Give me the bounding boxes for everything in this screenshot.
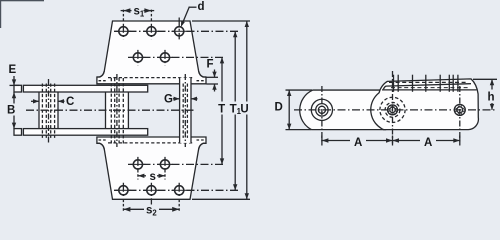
side view horizontal centerline <box>294 109 497 111</box>
svg-text:s: s <box>150 171 156 183</box>
pin2 knurl <box>388 105 397 114</box>
hole row centerline bottom outer <box>114 189 239 191</box>
holes top plate outer row <box>119 27 184 36</box>
scan artifact left edge <box>0 0 1 28</box>
roller strip pin2 <box>106 92 129 129</box>
hidden pin lines pin2 <box>111 78 123 144</box>
dimension U <box>192 21 250 199</box>
rear link sidebar <box>300 90 386 130</box>
svg-text:C: C <box>66 96 74 108</box>
dimension s <box>138 170 165 180</box>
sidebar top <box>23 85 147 92</box>
svg-text:F: F <box>207 59 214 71</box>
svg-text:A: A <box>354 137 362 149</box>
dimension G arrows <box>173 97 198 101</box>
foot hidden marks top right <box>197 80 205 82</box>
dimension s2 <box>123 200 179 213</box>
foot hidden marks bottom left <box>99 139 107 141</box>
bend hidden line top plate <box>108 77 194 79</box>
pin3 knurl <box>455 105 465 115</box>
pin2 vertical centerline <box>392 71 394 144</box>
attachment plate bottom (trapezoid slat with bent feet) <box>97 137 206 199</box>
hole row centerline top outer <box>114 30 239 32</box>
attachment plate top (trapezoid slat with bent feet) <box>97 21 206 84</box>
svg-text:U: U <box>240 103 248 115</box>
svg-text:T: T <box>218 103 225 115</box>
svg-text:E: E <box>9 64 17 76</box>
front plate top edge <box>382 89 477 91</box>
holes bottom plate inner row <box>133 160 169 169</box>
pin boss strip at G <box>180 78 191 143</box>
hole vertical centerlines <box>123 18 179 205</box>
dimension A line <box>322 136 460 146</box>
hidden pin lines pin1 <box>42 84 54 138</box>
sidebar stub bottom left <box>14 129 22 136</box>
dimension s1 <box>121 8 155 21</box>
pin2 pin end <box>388 105 398 115</box>
dimension D <box>286 90 313 130</box>
leader d <box>181 7 197 27</box>
front link sidebar with attachment flange <box>371 79 479 130</box>
holes bottom plate outer row <box>119 186 184 195</box>
svg-text:A: A <box>424 137 432 149</box>
dimension T1 <box>233 31 237 190</box>
svg-text:B: B <box>7 105 15 117</box>
bend hidden line bottom plate <box>108 142 194 144</box>
sidebar bottom <box>23 129 147 136</box>
holes top plate inner row <box>133 53 169 62</box>
chain centerline horizontal <box>26 109 196 111</box>
scan artifact top edge <box>0 0 44 1</box>
sidebar stub top left <box>14 85 22 92</box>
hole center cross horizontals <box>116 31 187 190</box>
flange band bottom edge <box>383 84 471 90</box>
dimension E <box>10 76 20 85</box>
hole row centerline bottom inner <box>128 163 225 165</box>
pin1 roller circles <box>311 99 332 120</box>
svg-text:D: D <box>275 102 283 114</box>
pin3 vertical centerline <box>459 86 461 144</box>
dimension B <box>12 92 16 128</box>
hidden pin lines pin3 <box>183 84 187 138</box>
flange ticks <box>394 75 458 92</box>
dimension F <box>207 70 219 92</box>
flange hidden lower dash <box>391 87 469 89</box>
centerline pin2 <box>116 74 118 147</box>
hole row centerline top inner <box>128 56 225 58</box>
roller strip pin1 <box>39 92 58 129</box>
pin1 vertical centerline <box>321 86 323 144</box>
dimension T <box>220 57 224 164</box>
pin3 pin end <box>454 104 465 115</box>
flange serration dashes <box>389 81 468 83</box>
svg-text:h: h <box>488 92 495 104</box>
foot hidden marks bottom right <box>197 139 205 141</box>
centerline pin1 <box>48 79 50 143</box>
foot hidden marks top left <box>99 80 107 82</box>
dimension h <box>473 79 497 110</box>
centerline pin3 <box>184 74 186 147</box>
svg-text:d: d <box>198 1 205 13</box>
pin2 hidden barrel circles <box>380 97 405 122</box>
svg-text:G: G <box>164 94 173 106</box>
dimension C arrows <box>31 99 65 103</box>
